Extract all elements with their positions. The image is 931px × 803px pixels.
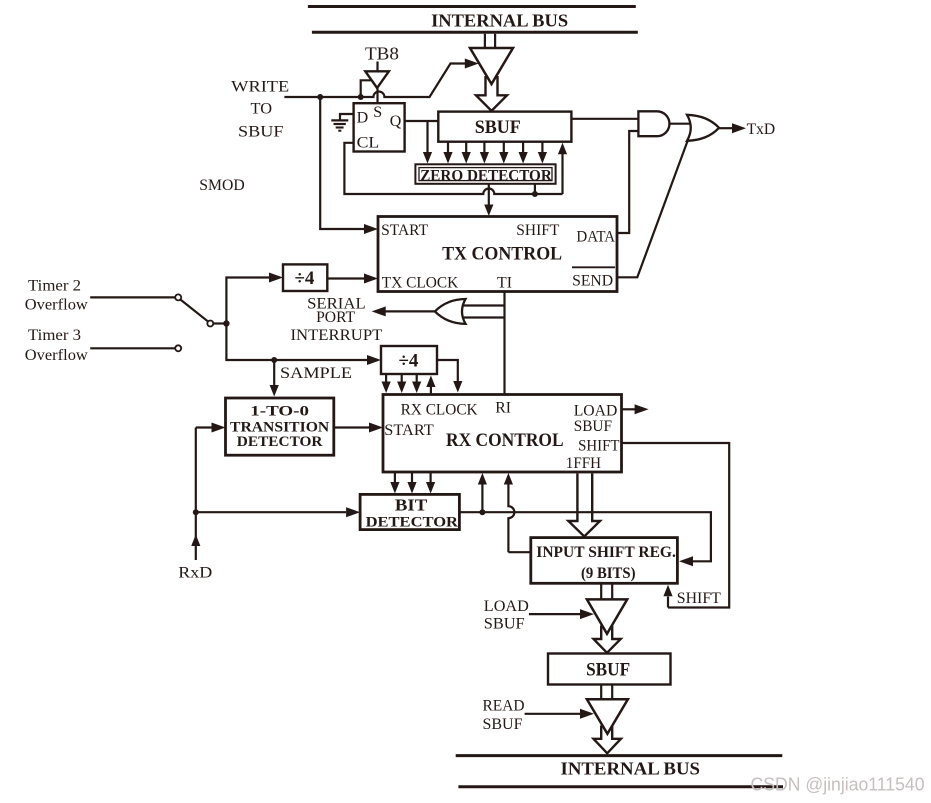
svg-text:SHIFT: SHIFT <box>578 438 620 455</box>
svg-text:TxD: TxD <box>747 121 776 138</box>
svg-text:ZERO DETECTOR: ZERO DETECTOR <box>420 167 552 184</box>
svg-text:SHIFT: SHIFT <box>677 590 721 607</box>
svg-text:PORT: PORT <box>316 309 355 326</box>
svg-text:Q: Q <box>390 113 402 130</box>
svg-text:SAMPLE: SAMPLE <box>280 365 352 382</box>
svg-text:RX CONTROL: RX CONTROL <box>446 430 564 451</box>
svg-text:÷4: ÷4 <box>295 268 315 289</box>
svg-text:INPUT SHIFT REG.: INPUT SHIFT REG. <box>536 544 676 561</box>
svg-text:BIT: BIT <box>395 496 428 515</box>
svg-text:INTERRUPT: INTERRUPT <box>291 327 383 344</box>
svg-text:S: S <box>373 104 382 121</box>
svg-text:CL: CL <box>357 135 380 152</box>
svg-text:LOAD: LOAD <box>484 598 529 615</box>
svg-text:SHIFT: SHIFT <box>516 222 559 239</box>
svg-text:TX CONTROL: TX CONTROL <box>442 244 562 265</box>
svg-text:SBUF: SBUF <box>586 661 630 681</box>
svg-text:RI: RI <box>495 400 511 417</box>
svg-text:START: START <box>384 422 434 439</box>
svg-text:RxD: RxD <box>178 564 212 581</box>
svg-text:Overflow: Overflow <box>25 347 88 364</box>
svg-text:TX CLOCK: TX CLOCK <box>382 275 459 292</box>
svg-text:SBUF: SBUF <box>238 124 284 141</box>
svg-text:SBUF: SBUF <box>475 118 521 138</box>
svg-text:START: START <box>381 222 428 239</box>
svg-text:READ: READ <box>483 698 525 715</box>
svg-text:SBUF: SBUF <box>484 615 525 632</box>
svg-text:DETECTOR: DETECTOR <box>366 514 459 530</box>
svg-text:Timer 3: Timer 3 <box>28 327 81 344</box>
svg-text:WRITE: WRITE <box>231 79 289 96</box>
svg-text:DETECTOR: DETECTOR <box>237 434 323 450</box>
svg-text:RX CLOCK: RX CLOCK <box>401 402 478 419</box>
svg-text:SMOD: SMOD <box>199 177 244 194</box>
svg-text:÷4: ÷4 <box>399 351 419 372</box>
svg-text:(9 BITS): (9 BITS) <box>581 565 636 582</box>
svg-text:SEND: SEND <box>572 273 613 290</box>
svg-text:INTERNAL BUS: INTERNAL BUS <box>431 10 568 30</box>
svg-text:DATA: DATA <box>576 229 615 246</box>
svg-text:TI: TI <box>497 275 512 292</box>
svg-text:TB8: TB8 <box>365 44 399 64</box>
svg-text:SBUF: SBUF <box>483 716 523 733</box>
svg-text:1FFH: 1FFH <box>566 455 602 472</box>
svg-text:Overflow: Overflow <box>25 297 88 314</box>
svg-text:TO: TO <box>251 101 273 118</box>
svg-text:SBUF: SBUF <box>574 418 612 435</box>
svg-text:1-TO-0: 1-TO-0 <box>250 403 309 419</box>
svg-text:D: D <box>357 110 369 127</box>
svg-text:CSDN @jinjiao111540: CSDN @jinjiao111540 <box>751 774 925 795</box>
svg-text:INTERNAL BUS: INTERNAL BUS <box>561 759 701 779</box>
svg-text:Timer 2: Timer 2 <box>28 277 81 294</box>
